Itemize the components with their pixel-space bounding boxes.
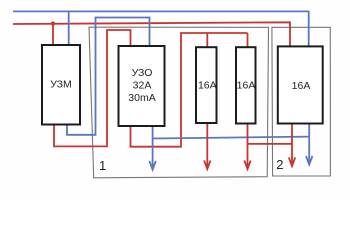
- wire phase drop to UZM input: [52, 24, 54, 46]
- arrow neutral load group1: [149, 161, 155, 170]
- wire breaker QF2 output down to load arrow: [247, 124, 249, 169]
- svg-text:30mA: 30mA: [128, 92, 155, 104]
- wire L phase bus top: [13, 22, 290, 46]
- breaker QF2 16A box: [236, 47, 256, 123]
- group 2 enclosure (unprotected group box): [272, 27, 331, 176]
- wire N neutral bus top: [13, 11, 309, 46]
- wire breaker QF3 output down to load arrow: [291, 124, 293, 166]
- node A junction dot on phase bus: [51, 21, 55, 25]
- wire UZO neutral output down to load arrow: [152, 126, 154, 169]
- wire UZM neutral output to UZO (down, right, up, bridge, down): [67, 18, 150, 135]
- svg-text:32А: 32А: [133, 80, 152, 92]
- svg-text:16А: 16А: [198, 80, 217, 92]
- svg-text:16А: 16А: [292, 80, 311, 92]
- arrow phase load QF2: [244, 160, 250, 169]
- arrow neutral load group2: [306, 156, 312, 165]
- svg-text:2: 2: [276, 157, 283, 172]
- group 1 enclosure (RCD-protected group box): [89, 27, 269, 178]
- breaker QF3 16A box (group 2): [278, 46, 323, 123]
- voltage relay UZM box: [42, 45, 80, 125]
- arrow phase load QF3: [289, 157, 295, 166]
- wire group2 neutral down to load arrow: [308, 124, 310, 164]
- wire phase drop to breaker QF1 top: [206, 33, 208, 47]
- svg-text:УЗО: УЗО: [132, 67, 153, 79]
- svg-text:16А: 16А: [237, 80, 256, 92]
- RCD UZO box: [119, 46, 165, 126]
- wire phase drop to breaker QF2 top: [247, 33, 249, 47]
- wire UZO phase output riser to breaker feed bridge: [131, 33, 248, 147]
- arrow phase load QF1: [204, 160, 210, 169]
- svg-text:1: 1: [99, 158, 106, 173]
- svg-text:УЗМ: УЗМ: [50, 79, 72, 91]
- wire neutral drop to UZM input: [68, 11, 70, 45]
- wire UZM phase output to UZO (down, right, up, bridge, down): [54, 30, 131, 146]
- breaker QF1 16A box: [196, 47, 217, 123]
- wire breaker QF1 output down to load arrow: [206, 123, 208, 168]
- wire phase link between QF2 and QF3 outputs: [248, 143, 293, 145]
- wire neutral distribution bus bottom: [153, 137, 310, 139]
